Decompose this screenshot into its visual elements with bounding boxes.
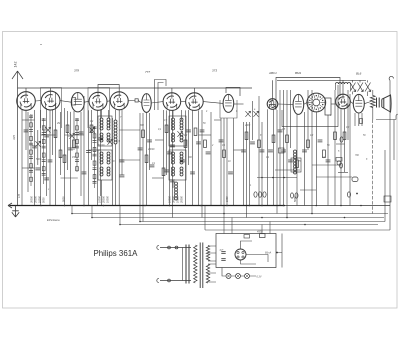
resistor R2 — [59, 150, 62, 158]
resistor R11 — [162, 168, 165, 176]
wire power drop 4 — [269, 222, 271, 234]
capacitor C17 — [170, 145, 175, 147]
wire trunk 63 — [340, 109, 342, 206]
svg-text:2000: 2000 — [244, 125, 251, 127]
wire trunk 41 — [226, 118, 228, 206]
wire tube stub 12 — [304, 103, 307, 105]
coil winding L1a — [100, 118, 103, 121]
component ladder 4 — [94, 126, 96, 188]
tube V12 — [336, 94, 351, 109]
wire chain stubs — [102, 110, 182, 206]
capacitor C35 — [326, 160, 331, 162]
svg-text:0,1: 0,1 — [222, 145, 226, 147]
svg-text:0,1: 0,1 — [266, 157, 270, 159]
trimmer TC1 — [350, 83, 356, 92]
wire trunk 65 — [347, 90, 349, 140]
resistor R40 — [260, 234, 266, 238]
wire link 14 — [119, 159, 140, 161]
capacitor C32 — [288, 160, 293, 162]
wire rail drop 5 — [204, 206, 206, 231]
wire trunk 4 — [34, 110, 36, 206]
capacitor C81 — [221, 259, 225, 261]
svg-text:5: 5 — [338, 151, 340, 153]
svg-text:5000: 5000 — [43, 197, 46, 203]
mains plug contact 1 — [168, 246, 171, 249]
svg-text:10000: 10000 — [99, 195, 102, 203]
wire trunk 71 — [389, 80, 391, 230]
svg-text:20000: 20000 — [35, 195, 38, 204]
pilot lamp E3 — [245, 274, 250, 279]
wire trunk 30 — [166, 110, 168, 175]
wire speaker bottom — [376, 119, 396, 121]
wire trunk 24 — [121, 110, 123, 175]
wire trunk 18 — [88, 110, 90, 205]
wire trunk 46 — [252, 101, 254, 140]
junction node P1 — [276, 252, 278, 254]
wire power right — [276, 234, 282, 268]
coil winding L4a — [172, 152, 175, 155]
wire trunk 11 — [60, 112, 62, 175]
power box outline — [216, 234, 276, 268]
wire link 1 — [22, 119, 35, 121]
wire tuner box right — [337, 85, 339, 127]
transformer T1 secondary b — [206, 264, 209, 283]
svg-text:a: a — [254, 109, 256, 111]
svg-text:0,1: 0,1 — [44, 131, 48, 133]
wire trimmer leads — [353, 80, 368, 96]
transformer T1 secondary a — [206, 246, 209, 262]
tube V13 — [353, 94, 364, 113]
svg-text:1M: 1M — [90, 121, 93, 123]
wire power drop 3 — [261, 225, 263, 234]
coil winding L2b — [107, 152, 110, 155]
wire trunk 10 — [55, 92, 57, 206]
svg-text:10: 10 — [228, 161, 231, 163]
tube V10 — [267, 99, 278, 110]
tube V9 — [223, 94, 234, 112]
svg-text:50: 50 — [363, 135, 366, 137]
svg-text:0,1: 0,1 — [117, 141, 121, 143]
resistor R22 — [334, 132, 337, 140]
wire link 9 — [282, 126, 338, 128]
wire link 2 — [41, 134, 56, 136]
capacitor C23 — [190, 172, 195, 174]
svg-text:300: 300 — [188, 157, 193, 159]
junction node 3 — [139, 221, 141, 223]
wire link 17 — [257, 177, 297, 179]
wire trunk 17 — [83, 96, 85, 206]
svg-text:50: 50 — [327, 145, 330, 147]
wire link 18 — [300, 189, 316, 191]
coil winding L1d — [107, 133, 110, 136]
capacitor C71 — [340, 137, 343, 142]
coil winding L2c — [100, 167, 103, 170]
capacitor C33 — [302, 150, 307, 152]
resistor R1 — [54, 130, 57, 138]
coil winding L3b — [180, 118, 183, 121]
ground junction 13 — [340, 205, 342, 207]
wire tube stub 7 — [151, 102, 163, 103]
coil winding L6 — [294, 150, 297, 153]
wire B+ rail 5 — [205, 229, 390, 231]
wire inside box — [241, 255, 269, 265]
wire bracket V6-V7 a — [155, 80, 167, 111]
resistor R21 — [323, 150, 326, 158]
trimmer arrow 5 — [245, 111, 250, 117]
wire top link V10 — [272, 80, 274, 98]
wire trunk 38 — [210, 112, 212, 206]
wire top link V12 — [342, 80, 344, 94]
capacitor C27 — [250, 142, 255, 144]
wire tube stub 10 — [234, 103, 244, 105]
svg-text:700: 700 — [355, 155, 360, 157]
trimmer arrow 2 — [45, 127, 50, 133]
wire trunk 52 — [279, 90, 281, 206]
svg-text:373: 373 — [212, 69, 217, 73]
capacitor C10 — [98, 138, 103, 140]
wire trunk 12 — [64, 108, 66, 206]
wire tube stub 6 — [138, 101, 142, 104]
capacitor C9 — [82, 172, 87, 174]
wire trunk 69 — [361, 113, 363, 126]
wire trunk 14 — [70, 112, 72, 206]
wire trunk 50 — [273, 109, 275, 205]
capacitor C29 — [268, 150, 273, 152]
wire link 11 — [316, 176, 352, 178]
resistor R12 — [194, 128, 197, 136]
wire power drop 1 — [223, 214, 225, 234]
resistor R9 — [165, 125, 168, 133]
wire tube stub 8 — [181, 101, 186, 103]
wire tube stub 3 — [84, 100, 89, 103]
coil winding L3d — [180, 133, 183, 136]
capacitor C21 — [206, 152, 211, 154]
shield box V4 — [88, 88, 110, 129]
wire trunk 49 — [267, 109, 269, 205]
svg-text:BM1: BM1 — [295, 71, 302, 75]
grid box V3 — [72, 98, 76, 106]
svg-text:378: 378 — [74, 69, 79, 73]
junction dots mid — [261, 177, 263, 179]
junction node 9 — [311, 213, 313, 215]
ground junction 14 — [360, 205, 362, 207]
capacitor C30 — [278, 130, 283, 132]
svg-text:ABC1: ABC1 — [268, 71, 277, 75]
wire secondary taps — [209, 246, 217, 282]
rectifier tube V14 — [235, 249, 246, 260]
svg-text:335: 335 — [12, 135, 16, 140]
coupling box V5-V6 — [135, 99, 138, 102]
svg-text:0,5: 0,5 — [164, 120, 168, 122]
terminal hook right — [389, 76, 393, 80]
trimmer arrow 6 — [253, 111, 258, 117]
coil winding L4b — [180, 152, 183, 155]
resistor R3 — [66, 125, 69, 133]
svg-text:30000: 30000 — [173, 195, 176, 203]
resistor R14 — [223, 150, 226, 158]
wire trunk 21 — [100, 110, 102, 196]
wire trunk 9 — [52, 110, 54, 155]
resistor R6 — [63, 155, 66, 163]
svg-text:50: 50 — [203, 123, 206, 125]
wire trunk 60 — [315, 112, 317, 206]
junction node 1 — [71, 213, 73, 215]
resistor R5 — [90, 125, 93, 133]
resistor R17 — [272, 135, 275, 143]
wire trunk 44 — [246, 122, 248, 218]
wire field return — [371, 120, 373, 214]
wire grid cap V2 — [50, 88, 52, 92]
wire tube stub 2 — [60, 101, 71, 103]
IF transformer can IFT1a — [98, 116, 112, 146]
speaker pin comp — [360, 119, 363, 124]
resistor R8 — [145, 155, 148, 163]
capacitor C5 — [24, 130, 29, 132]
wire trunk 16 — [80, 112, 82, 196]
svg-text:2: 2 — [211, 145, 214, 147]
wire top right bus — [277, 79, 366, 81]
wire tube stub 13 — [331, 103, 336, 105]
wire B+ rail 4 — [120, 224, 378, 226]
tube V2 — [41, 91, 60, 110]
resistor R23 — [343, 132, 346, 140]
capacitor C14 — [150, 165, 155, 167]
wire link 16 — [152, 177, 164, 179]
ground junction 2 — [64, 205, 66, 207]
svg-text:30000: 30000 — [31, 195, 34, 203]
left arrow terminal — [8, 203, 15, 208]
ground junction 8 — [226, 205, 228, 207]
tube V1 — [17, 92, 36, 111]
tube V4 — [89, 92, 107, 110]
wire trunk 3 — [27, 112, 29, 192]
capacitor C34 — [318, 140, 323, 142]
svg-text:x: x — [47, 189, 50, 191]
svg-text:10000: 10000 — [177, 195, 180, 203]
capacitor C19 — [164, 170, 169, 172]
antenna terminal — [12, 71, 23, 206]
resistor R15 — [245, 132, 248, 140]
capacitor C36 — [44, 178, 49, 180]
wire L20 leads — [336, 84, 351, 90]
wire trunk 35 — [192, 110, 194, 205]
ground junction 7 — [200, 205, 202, 207]
wire link 13 — [214, 119, 221, 121]
wire trunk 33 — [185, 110, 187, 205]
component RC by switch — [337, 161, 341, 165]
coil winding L1c — [100, 133, 103, 136]
svg-text:Philips 361A: Philips 361A — [94, 249, 139, 258]
wire trunk 13 — [67, 111, 69, 170]
wire trunk 6 — [40, 110, 42, 206]
wire trunk 64 — [344, 109, 346, 172]
svg-text:60: 60 — [108, 121, 111, 123]
wire trunk 22 — [112, 118, 114, 206]
svg-text:1000: 1000 — [226, 196, 229, 202]
wire trunk 37 — [201, 110, 203, 218]
svg-text:1: 1 — [250, 185, 252, 187]
wire link 19 — [336, 143, 345, 145]
svg-text:60mA: 60mA — [265, 252, 272, 255]
wire link 12 — [275, 169, 300, 171]
component ladder 2 — [43, 118, 45, 184]
coil winding L4c — [172, 167, 175, 170]
mains plug contact 2 — [175, 246, 178, 249]
wire heater bus — [222, 268, 226, 277]
mains terminal top — [157, 246, 191, 250]
coil winding L2d — [107, 167, 110, 170]
svg-text:6: 6 — [236, 111, 238, 113]
capacitor C31 — [281, 150, 286, 152]
trimmer arrow 1 — [35, 141, 40, 147]
wire grid cap V8 — [193, 88, 195, 93]
wire ground bus right — [285, 205, 390, 207]
ground junction 4 — [103, 205, 105, 207]
wire trunk 48 — [261, 122, 263, 206]
tube V3 — [71, 93, 84, 112]
coil winding L3c — [172, 133, 175, 136]
svg-text:25: 25 — [297, 161, 301, 163]
capacitor C13 — [147, 140, 152, 142]
junction node 2 — [91, 217, 93, 219]
junction node 6 — [223, 213, 225, 215]
svg-text:0,5: 0,5 — [282, 129, 286, 131]
wire tick — [338, 172, 348, 174]
mains terminal bottom — [157, 279, 191, 283]
capacitor C72 — [340, 163, 343, 168]
wire tube stub 11 — [278, 103, 293, 105]
ground junction 10 — [261, 205, 263, 207]
wire link 20 — [22, 167, 35, 169]
junction node 7 — [261, 217, 263, 219]
coil winding L7 — [114, 120, 117, 123]
svg-text:1M: 1M — [310, 135, 313, 137]
svg-text:20000: 20000 — [103, 195, 106, 204]
ground junction 9 — [249, 205, 251, 207]
svg-text:EPs/Hana: EPs/Hana — [47, 218, 60, 222]
wire rail drop 4 — [119, 206, 121, 225]
terminal hook right 2 — [396, 114, 398, 119]
wire trunk 43 — [243, 122, 245, 206]
wire trunk 7 — [46, 108, 48, 196]
terminal box right — [384, 196, 391, 202]
wire tube stub 5 — [128, 100, 135, 102]
pilot lamp E1 — [226, 274, 231, 279]
svg-text:40: 40 — [112, 160, 115, 163]
trimmer arrow 8 — [177, 131, 182, 137]
junction node 8 — [286, 217, 288, 219]
component box top — [244, 235, 250, 239]
svg-text:0,1: 0,1 — [158, 129, 162, 131]
coil winding L5 — [175, 182, 178, 185]
wire grid cap V7 — [171, 88, 173, 93]
component ladder 1 — [30, 115, 32, 186]
wire link 8 — [234, 149, 244, 151]
wire trunk 39 — [220, 118, 222, 206]
wire trunk 54 — [286, 90, 288, 218]
svg-text:2M: 2M — [56, 123, 60, 125]
coil winding L3a — [172, 118, 175, 121]
wire tube stub 1 — [35, 100, 41, 102]
ground junction 6 — [169, 205, 171, 207]
wire link 10 — [312, 164, 341, 166]
capacitor C8 — [86, 151, 91, 153]
svg-text:3: 3 — [330, 115, 332, 117]
ground junction 1 — [40, 205, 42, 207]
wire trunk 5 — [37, 130, 39, 165]
wire trunk 2 — [25, 110, 27, 150]
wire link 4 — [89, 149, 101, 151]
wire trunk 53 — [283, 90, 285, 206]
capacitor C12 — [138, 148, 143, 150]
capacitor C3 — [44, 135, 49, 137]
component small box — [279, 148, 285, 153]
IF transformer can IFT2b — [169, 150, 186, 180]
capacitor C18 — [186, 130, 191, 132]
svg-text:5000: 5000 — [294, 196, 297, 202]
wire link 3 — [65, 134, 85, 136]
IF transformer can IFT2a — [169, 116, 186, 146]
wire B+ rail 2 — [92, 217, 384, 219]
capacitor C24 — [219, 140, 224, 142]
wire trunk 40 — [223, 118, 225, 214]
shield box V2 — [41, 88, 62, 129]
svg-text:BL6: BL6 — [356, 72, 362, 76]
wire trunk 51 — [276, 110, 278, 214]
junction node Q — [356, 193, 358, 195]
resistor R18 — [286, 135, 289, 143]
capacitor C37 — [120, 175, 125, 177]
coil winding L4d — [180, 167, 183, 170]
wire rectifier top — [241, 241, 253, 249]
wire RF box outline — [276, 78, 340, 111]
wire rail drop 1 — [71, 206, 73, 214]
capacitor C15 — [167, 152, 172, 154]
tube V8 — [186, 93, 204, 111]
svg-text:4µF: 4µF — [220, 249, 224, 252]
wire trunk 25 — [139, 113, 141, 206]
capacitor C4 — [48, 160, 53, 162]
wire trunk 47 — [258, 96, 260, 206]
junction node 4 — [119, 224, 121, 226]
wire trunk 55 — [290, 90, 292, 148]
capacitor C20 — [196, 142, 201, 144]
resistor field coil — [370, 96, 375, 108]
tube V7 — [163, 93, 181, 111]
svg-text:8: 8 — [366, 159, 368, 161]
wire top link V9 — [226, 88, 240, 97]
wire trunk 58 — [307, 90, 309, 150]
wire link 7 — [199, 134, 212, 136]
wire trunk 19 — [91, 110, 93, 160]
tube V6 — [142, 94, 151, 113]
wire trunk 31 — [169, 110, 171, 206]
resistor R13 — [204, 140, 207, 148]
rotary switch S1 — [307, 93, 326, 112]
coil winding L1b — [107, 118, 110, 121]
wire B+ rail 1 — [72, 213, 388, 215]
junction node 5 — [304, 224, 306, 226]
wire field leads — [372, 90, 374, 120]
wire link 6 — [155, 139, 164, 141]
wire main ground bus — [10, 205, 285, 207]
ground junction 3 — [83, 205, 85, 207]
capacitor C28 — [260, 150, 265, 152]
resistor R16 — [258, 140, 261, 148]
wire trunk 56 — [296, 114, 298, 205]
svg-text:777: 777 — [145, 70, 150, 74]
svg-text:4: 4 — [206, 110, 208, 113]
